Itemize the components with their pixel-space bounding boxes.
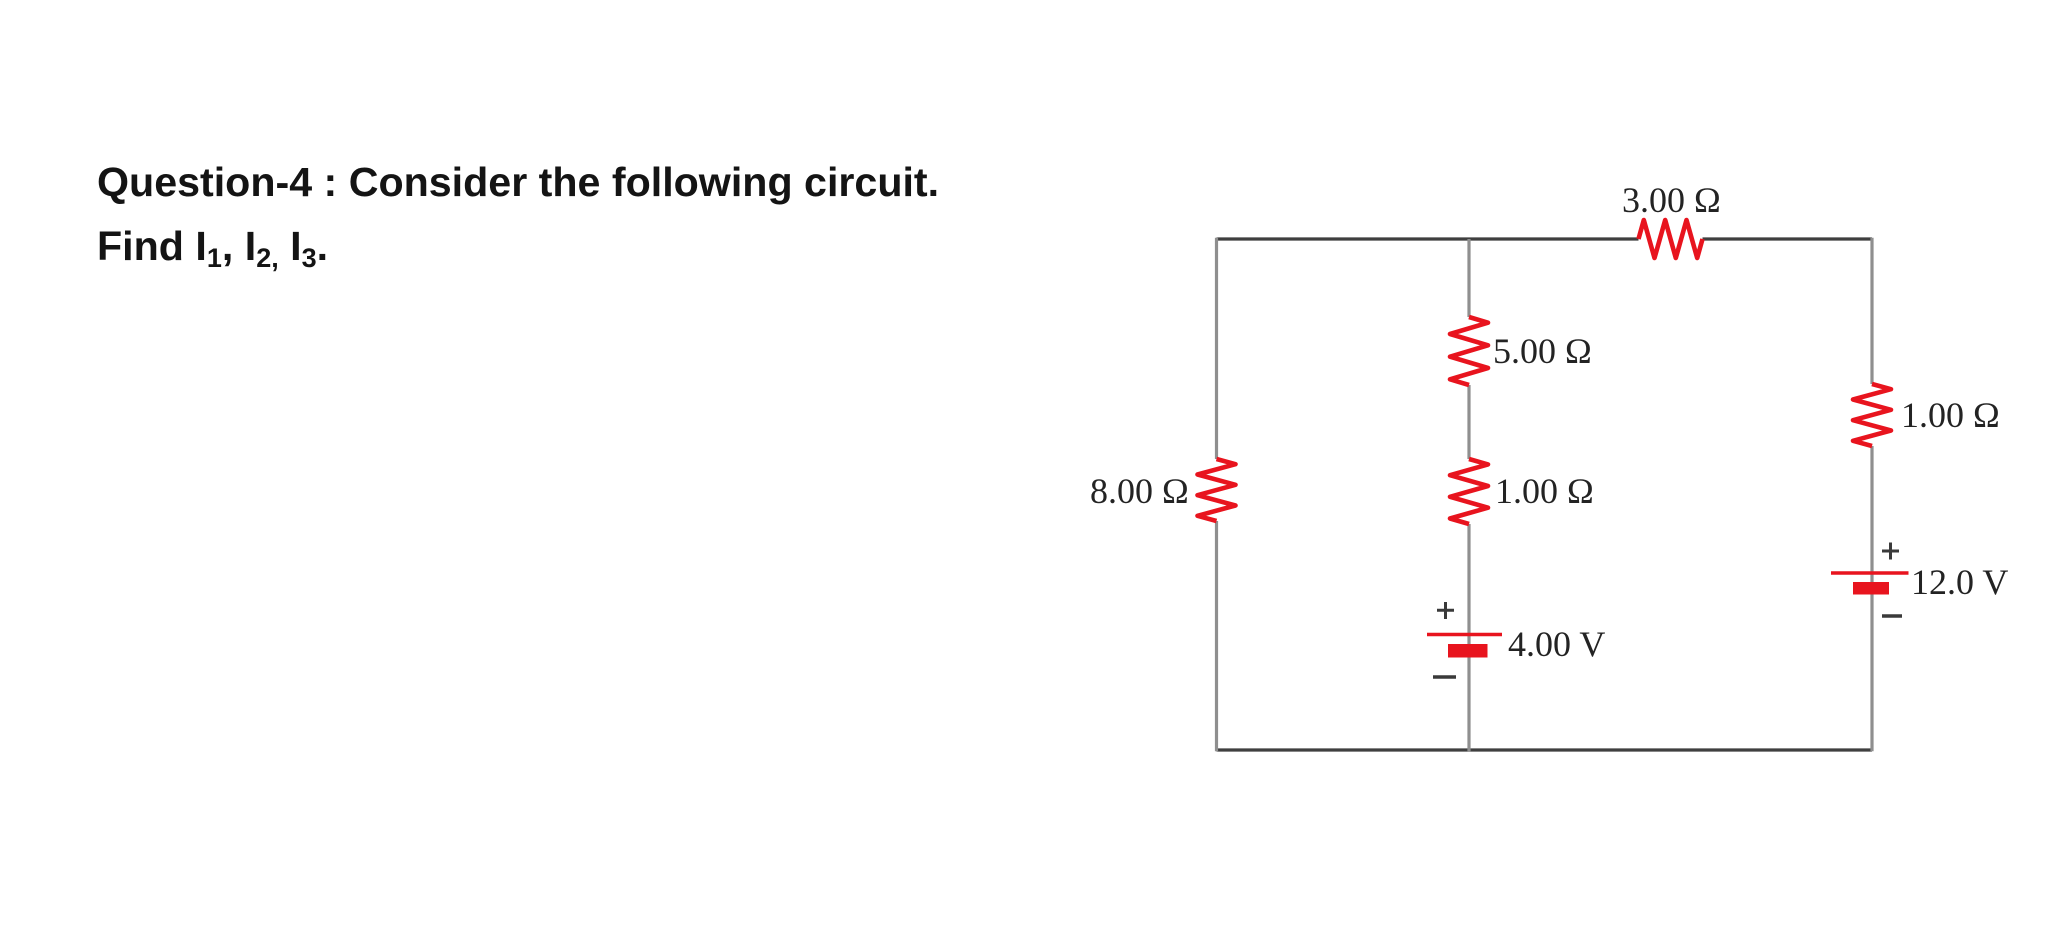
battery 12.0 V (right branch): positive long plate [1831,571,1909,574]
wire right lower segment through battery [1870,446,1873,751]
wire middle upper segment [1467,239,1470,317]
resistor 8.00-ohm (left branch) [1198,459,1236,521]
resistor 5.00-ohm (middle branch upper) [1450,317,1488,385]
wire right upper segment [1870,238,1873,384]
wire left lower segment [1215,521,1218,751]
battery 12.0 V: negative short thick plate [1853,582,1889,595]
svg-text:1.00 Ω: 1.00 Ω [1901,395,2000,435]
wire left upper segment [1215,238,1218,459]
wire top-right segment [1703,237,1873,240]
svg-text:8.00 Ω: 8.00 Ω [1090,471,1189,511]
svg-text:3.00 Ω: 3.00 Ω [1622,180,1721,220]
question text [97,150,939,278]
svg-text:4.00 V: 4.00 V [1508,624,1605,664]
wire bottom [1217,748,1873,751]
plus sign of 4.00 V battery [1437,602,1454,619]
battery 4.00 V: negative short thick plate [1448,644,1488,658]
minus sign of 12.0 V battery [1882,614,1902,618]
wire middle between resistors [1467,385,1470,459]
plus sign of 12.0 V battery [1882,543,1899,560]
resistor 1.00-ohm (middle branch lower) [1450,459,1488,524]
resistor 3.00-ohm (top) [1639,220,1703,258]
svg-text:5.00 Ω: 5.00 Ω [1493,331,1592,371]
svg-text:12.0 V: 12.0 V [1911,562,2008,602]
minus sign of 4.00 V battery [1433,675,1456,679]
wire top-left segment [1217,237,1639,240]
svg-text:1.00 Ω: 1.00 Ω [1495,471,1594,511]
battery 4.00 V (middle branch): positive long plate [1427,633,1502,636]
resistor 1.00-ohm (right branch) [1853,384,1891,446]
wire middle below 1-ohm down through battery to bottom [1467,524,1470,751]
